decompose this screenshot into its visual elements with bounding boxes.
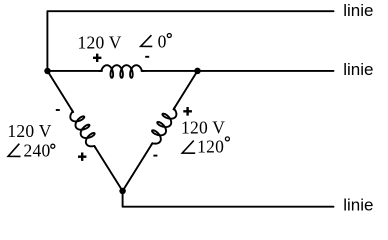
winding right (120 V angle 120)	[145, 103, 180, 148]
node B junction dot (top right)	[194, 68, 201, 75]
polarity + (top winding, left)	[93, 54, 101, 62]
polarity + (left winding, bottom)	[78, 153, 86, 161]
svg-text:linie: linie	[343, 196, 373, 215]
node A junction dot (top left)	[44, 68, 51, 75]
svg-text:0: 0	[158, 32, 167, 52]
svg-text:120 V: 120 V	[181, 117, 225, 137]
angle symbol (top label)	[141, 35, 153, 46]
svg-text:linie: linie	[343, 1, 373, 20]
winding left (120 V angle 240)	[67, 106, 102, 151]
svg-text:linie: linie	[343, 60, 373, 79]
wire left side lower stub	[95, 147, 123, 191]
wire right side upper stub	[174, 71, 198, 110]
node C junction dot (bottom)	[119, 188, 126, 195]
degree ring (top label)	[167, 34, 171, 38]
polarity + (right winding, top)	[183, 107, 192, 116]
polarity - (left winding, top)	[56, 109, 60, 111]
wire top side right stub (winding to node B)	[142, 70, 198, 72]
wire riser from node A up and across to top line	[47, 11, 333, 71]
svg-text:240: 240	[24, 141, 51, 161]
degree ring (right label)	[225, 137, 229, 141]
wire top side left stub (node A to winding)	[47, 70, 102, 72]
polarity - (top winding, right)	[145, 56, 149, 58]
wire middle line from node B to linie	[198, 70, 334, 72]
wire left side upper stub	[48, 71, 74, 112]
winding top (120 V angle 0)	[99, 65, 144, 78]
degree ring (left label)	[51, 144, 55, 148]
wire right side lower stub	[123, 144, 152, 191]
wire bottom from node C down and across to linie	[123, 191, 334, 207]
svg-text:120 V: 120 V	[7, 121, 51, 141]
angle symbol (left label)	[8, 144, 20, 157]
svg-text:120: 120	[197, 137, 224, 157]
angle symbol (right label)	[182, 141, 195, 154]
polarity - (right winding, bottom)	[153, 155, 157, 157]
svg-text:120 V: 120 V	[78, 32, 122, 52]
